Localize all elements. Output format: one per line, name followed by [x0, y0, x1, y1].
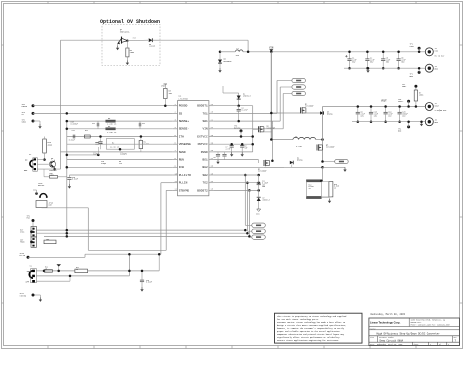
svg-text:FCB: FCB [179, 166, 184, 169]
svg-text:Demo Circuit 088A: Demo Circuit 088A [380, 340, 404, 343]
svg-text:Si7460DP: Si7460DP [258, 171, 267, 173]
svg-text:C7: C7 [226, 147, 228, 149]
svg-text:1%: 1% [309, 188, 311, 190]
svg-text:0.01uF: 0.01uF [72, 179, 78, 181]
svg-text:PGOOD: PGOOD [22, 106, 27, 108]
svg-text:0.033uF: 0.033uF [71, 124, 78, 126]
svg-text:R6: R6 [108, 126, 110, 128]
svg-text:4.7uH: 4.7uH [296, 145, 302, 148]
svg-text:0.01uF: 0.01uF [69, 140, 75, 142]
svg-text:B340A: B340A [327, 113, 333, 116]
svg-text:L2: L2 [237, 47, 239, 50]
svg-text:TG1: TG1 [202, 112, 207, 115]
svg-text:COM: COM [49, 205, 52, 207]
svg-text:ON: ON [25, 159, 27, 162]
svg-text:C9: C9 [214, 157, 216, 159]
svg-text:B340A: B340A [297, 159, 303, 162]
svg-text:R11: R11 [85, 130, 88, 132]
svg-text:1uF: 1uF [245, 147, 248, 149]
svg-text:GND: GND [398, 131, 401, 133]
svg-text:PROG: PROG [20, 242, 24, 244]
svg-text:VOSENSE: VOSENSE [179, 143, 191, 146]
svg-text:LL4148: LL4148 [149, 46, 155, 48]
svg-text:(180pF): (180pF) [120, 153, 127, 155]
svg-text:Linear Technology Corp.: Linear Technology Corp. [370, 321, 401, 325]
svg-text:0.47uF: 0.47uF [242, 109, 248, 111]
svg-text:SENSE+: SENSE+ [179, 120, 190, 123]
svg-text:Title: Title [370, 327, 377, 330]
svg-text:TG2: TG2 [202, 182, 207, 185]
svg-text:3.3V@5A max: 3.3V@5A max [435, 109, 447, 112]
svg-text:BG2: BG2 [202, 166, 207, 169]
svg-text:CMDSH-3: CMDSH-3 [263, 199, 270, 201]
svg-text:SW2: SW2 [202, 174, 207, 177]
svg-text:1M: 1M [76, 269, 78, 271]
svg-text:STBYMD: STBYMD [20, 295, 26, 297]
svg-text:of: of [439, 344, 441, 346]
svg-text:R9: R9 [119, 161, 121, 163]
svg-text:PLLFLTR: PLLFLTR [179, 174, 191, 177]
svg-text:5V to 32V: 5V to 32V [435, 55, 446, 57]
svg-text:EXTVCC: EXTVCC [234, 128, 240, 130]
svg-text:C14: C14 [72, 130, 75, 132]
svg-text:BG1: BG1 [202, 159, 207, 162]
svg-text:C15: C15 [101, 161, 104, 163]
svg-text:R12: R12 [309, 184, 312, 186]
svg-text:High Efficiency Step-Up/Down D: High Efficiency Step-Up/Down DC/DC Conve… [377, 332, 441, 335]
svg-text:MMBT2907A: MMBT2907A [120, 30, 130, 33]
svg-text:TP0610T: TP0610T [49, 170, 57, 172]
svg-text:S2: S2 [29, 153, 31, 156]
svg-text:SW1: SW1 [202, 120, 207, 123]
svg-text:Size: Size [370, 337, 374, 339]
svg-text:Si7460DP: Si7460DP [326, 147, 335, 149]
svg-text:MMSZ5V6: MMSZ5V6 [224, 60, 233, 63]
svg-text:RUN: RUN [179, 159, 184, 162]
svg-text:Si7460DP: Si7460DP [305, 106, 314, 108]
svg-text:VOUT: VOUT [381, 100, 387, 103]
svg-text:C11: C11 [92, 123, 95, 125]
svg-text:Phone: (408)432-1900 Fax: (408: Phone: (408)432-1900 Fax: (408)434-0507 [411, 324, 451, 326]
svg-text:1: 1 [448, 344, 449, 346]
svg-text:Wednesday, March 08, 2003: Wednesday, March 08, 2003 [377, 344, 402, 346]
svg-text:LTC3780: LTC3780 [179, 97, 189, 100]
svg-text:PLLIN: PLLIN [20, 255, 25, 257]
svg-text:SGND: SGND [179, 151, 186, 154]
svg-text:VIN: VIN [256, 213, 259, 216]
svg-text:0.01uF: 0.01uF [146, 282, 152, 284]
svg-text:12.1K 1%: 12.1K 1% [110, 145, 120, 148]
svg-text:ITH: ITH [179, 135, 184, 138]
svg-text:OFF: OFF [26, 281, 29, 284]
svg-text:STBYMD: STBYMD [179, 189, 190, 192]
svg-text:1%: 1% [334, 188, 336, 190]
svg-text:C8: C8 [245, 146, 247, 148]
svg-text:1M: 1M [45, 269, 47, 271]
svg-text:R20: R20 [133, 38, 136, 40]
svg-text:Wednesday, March 08, 2003: Wednesday, March 08, 2003 [371, 313, 406, 316]
svg-text:EXTVCC: EXTVCC [197, 135, 208, 138]
svg-text:PGOOD: PGOOD [179, 105, 188, 108]
svg-text:(1uF): (1uF) [93, 153, 98, 155]
svg-text:1uH: 1uH [236, 54, 239, 57]
svg-text:INTVCC: INTVCC [197, 143, 208, 146]
svg-text:X5R: X5R [262, 186, 265, 188]
svg-text:Optional OV Shutdown: Optional OV Shutdown [100, 19, 160, 25]
svg-text:Contact Linear Applications En: Contact Linear Applications Engineering … [277, 339, 339, 342]
svg-text:R13: R13 [334, 184, 337, 186]
svg-text:470pF: 470pF [101, 163, 106, 165]
svg-text:PGB+: PGB+ [402, 86, 406, 88]
svg-text:OFF: OFF [24, 169, 27, 172]
svg-text:R5: R5 [108, 118, 110, 120]
svg-text:SYNC: SYNC [20, 232, 24, 234]
svg-text:ADJSET: ADJSET [38, 184, 45, 187]
svg-text:VIN: VIN [202, 128, 207, 131]
svg-text:SS: SS [179, 112, 183, 115]
svg-text:BOOST2: BOOST2 [197, 189, 208, 192]
svg-text:1.24K 1%: 1.24K 1% [107, 131, 117, 134]
svg-text:VREF: VREF [161, 85, 167, 88]
svg-text:1: 1 [430, 344, 431, 346]
svg-text:0.010: 0.010 [309, 186, 314, 188]
svg-text:VIN: VIN [269, 46, 274, 49]
svg-text:SGND: SGND [22, 122, 26, 124]
svg-text:BOOST1: BOOST1 [197, 105, 208, 108]
svg-text:Sheet: Sheet [414, 344, 419, 346]
svg-text:0.010: 0.010 [334, 186, 339, 188]
svg-text:PLLIN: PLLIN [179, 182, 188, 185]
svg-text:11K: 11K [119, 163, 122, 165]
svg-text:SS: SS [22, 114, 24, 116]
svg-text:CMDSH-3: CMDSH-3 [243, 96, 251, 98]
svg-text:VOUT+: VOUT+ [398, 101, 403, 103]
svg-text:VIN: VIN [435, 49, 438, 52]
svg-text:(1M): (1M) [50, 175, 54, 177]
svg-text:Date:: Date: [370, 344, 375, 346]
svg-text:Q5: Q5 [51, 158, 53, 160]
svg-text:C12: C12 [142, 123, 145, 125]
svg-text:4.7uF: 4.7uF [226, 148, 231, 150]
svg-text:SENSE-: SENSE- [179, 128, 190, 131]
svg-text:PGND: PGND [201, 151, 208, 154]
svg-text:ON: ON [27, 270, 29, 273]
